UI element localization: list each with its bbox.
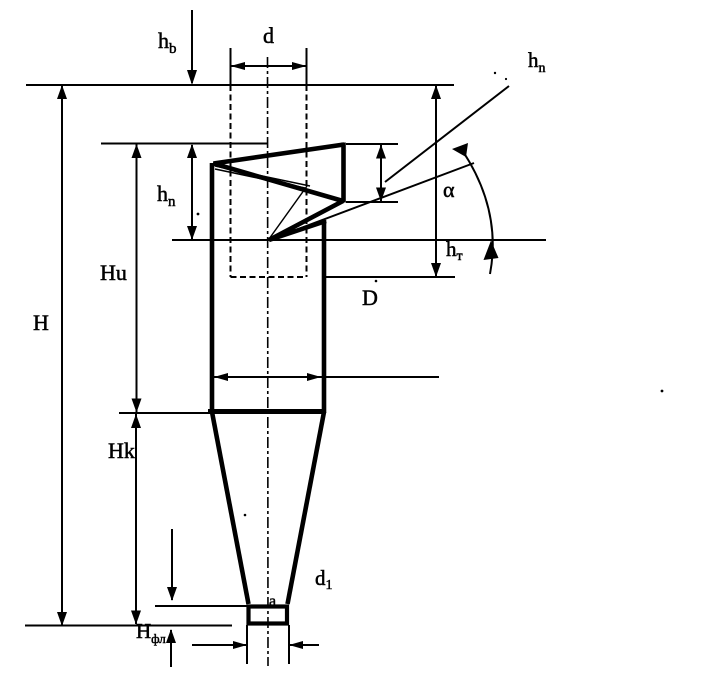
arrow h_t top [431,85,441,99]
bottom base line L6 [25,625,232,627]
svg-text:Hu: Hu [100,260,127,285]
svg-text:Hk: Hk [108,438,135,463]
flange extension line left [246,625,248,664]
arrow d1 left pointing right [233,641,247,649]
d dimension line [231,65,307,67]
arrow Hu bottom [132,399,142,413]
svg-text:D: D [362,285,378,310]
leader line B inlet slope [269,163,474,240]
inlet bottom-right extension line L3 [346,201,398,203]
svg-text:d: d [263,23,274,48]
inlet spiral top and middle edges [214,145,345,202]
arrow D left [214,373,228,381]
svg-text:H: H [33,310,49,335]
H_fl upper arrow line [171,529,173,600]
svg-text:a: a [269,593,276,610]
h_n left dimension line [191,145,193,239]
arrow h_n top [187,144,197,158]
inlet spiral lower V edges [269,201,343,240]
H_fl lower arrow line [170,630,172,667]
svg-text:α: α [443,177,455,202]
arrow H_fl upper down [167,587,177,601]
Hk dimension line [135,414,137,624]
arrow h_t bottom [431,263,441,277]
flange top extension line [155,605,249,607]
cone left edge [212,412,249,604]
arrow Hu top [132,144,142,158]
tube bottom extension line L5 [325,276,455,278]
cone right edge [288,412,325,604]
exhaust tube hidden left [230,85,232,277]
outlet flange box [249,607,288,624]
arrow alpha arc bottom [484,241,499,261]
d extension tick right [306,48,308,85]
arrowheads [57,62,499,649]
d1 dimension line left [192,644,246,646]
exhaust tube hidden bottom [231,276,307,278]
inlet lower line L4 [172,239,546,241]
arrow H bottom [57,612,67,626]
d extension tick left [230,48,232,85]
inlet inner thin line 3 [269,186,307,239]
leader line A to h_n label [385,86,509,182]
specks [197,72,664,517]
arrow d right [292,62,307,70]
arrow d1 right pointing left [289,641,303,649]
arrow inlet height top [376,145,386,159]
arrow Hk top [131,414,141,428]
D dimension line [214,376,439,378]
cylinder bottom edge [208,409,326,414]
arrow h_n bottom [187,226,197,240]
cylinder left wall [210,163,215,413]
arrow Hk bottom [131,611,141,625]
arrow inlet height bottom [376,188,386,202]
inlet top extension line L2 left [101,143,268,145]
cylinder bottom extension line [119,412,208,414]
h_t dimension line [435,86,437,276]
inlet inner thin line 1 [215,166,310,186]
Hu dimension line [136,144,138,412]
arrow h_b down [187,70,197,85]
exhaust tube hidden right [306,85,308,277]
arrow H top [57,85,67,99]
arrow D right [307,373,321,381]
inlet height dimension line [380,145,382,201]
cylinder right wall [322,220,327,413]
H dimension line [61,86,63,625]
arrow alpha arc top [452,143,468,157]
angle alpha arc [462,150,493,274]
wire: h_b arrow line [191,10,193,83]
top cover line L1 [26,84,454,86]
center axis line [267,57,270,666]
arrow d left [231,62,246,70]
inlet inner thin line 2 [215,169,305,188]
inlet spiral right edge [341,143,346,203]
d1 dimension line right [290,644,319,646]
arrow H_fl lower up [166,629,176,643]
flange extension line right [288,625,290,664]
inlet top extension line L2 right [346,143,398,145]
